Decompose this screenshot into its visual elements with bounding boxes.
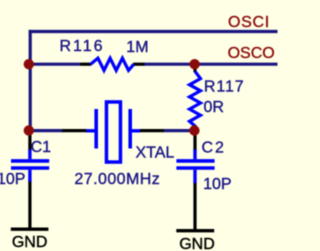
capacitor C2 body: [176, 150, 214, 184]
junction dot crystal-right: [189, 125, 199, 135]
wire OSCO net left segment: [29, 63, 80, 66]
svg-text:XTAL: XTAL: [136, 145, 175, 162]
resistor R116 pin 2: [133, 63, 144, 66]
svg-text:C1: C1: [31, 139, 52, 156]
svg-text:27.000MHz: 27.000MHz: [74, 171, 160, 188]
svg-text:0R: 0R: [204, 99, 224, 116]
svg-text:GND: GND: [12, 234, 48, 251]
svg-text:OSCI: OSCI: [228, 14, 270, 31]
resistor R117 pin 2: [193, 125, 196, 131]
svg-text:10P: 10P: [0, 171, 25, 188]
capacitor C2 pin 2 wire to ground: [193, 183, 196, 231]
svg-text:R116: R116: [60, 38, 105, 55]
svg-text:1M: 1M: [126, 39, 148, 56]
capacitor C1 pin 1: [28, 132, 31, 151]
resistor R116 body (zigzag): [91, 58, 134, 70]
crystal XTAL pin 2: [140, 129, 164, 132]
svg-text:GND: GND: [179, 236, 215, 251]
wire crystal net left segment: [29, 129, 63, 132]
svg-text:R117: R117: [204, 78, 245, 95]
resistor R116 pin 1: [80, 63, 91, 66]
ground symbol right (bar): [176, 229, 214, 232]
capacitor C1 body: [11, 150, 49, 182]
capacitor C2 pin 1: [193, 132, 196, 151]
crystal XTAL body: [86, 102, 140, 162]
junction dot OSCO-left: [24, 59, 34, 69]
svg-text:10P: 10P: [203, 176, 231, 193]
ground symbol left (bar): [11, 227, 49, 230]
wire left vertical (OSCI corner down to crystal net): [29, 30, 32, 131]
junction dot crystal-left: [24, 125, 34, 135]
resistor R117 body (vertical zigzag): [190, 71, 201, 126]
wire OSCI net (top horizontal): [29, 30, 278, 33]
wire OSCO net right segment: [144, 63, 278, 66]
junction dot OSCO-right: [189, 59, 199, 69]
svg-text:OSCO: OSCO: [228, 45, 275, 62]
capacitor C1 pin 2 wire to ground: [28, 182, 31, 230]
crystal XTAL pin 1: [62, 129, 87, 132]
svg-text:C2: C2: [202, 139, 226, 156]
wire crystal net right segment: [164, 129, 195, 132]
resistor R117 pin 1: [193, 64, 196, 72]
